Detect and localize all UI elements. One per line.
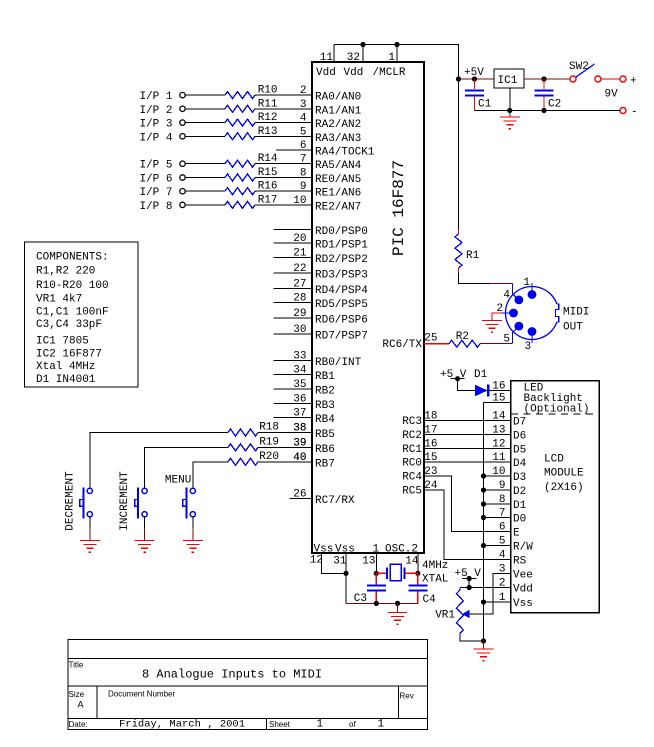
svg-text:8: 8	[499, 494, 506, 506]
svg-text:R10-R20 100: R10-R20 100	[36, 280, 109, 292]
svg-text:5: 5	[499, 536, 506, 548]
svg-text:RC3: RC3	[402, 416, 422, 428]
svg-text:RD6/PSP6: RD6/PSP6	[315, 315, 368, 327]
node I/P 3 terminal	[139, 119, 185, 131]
svg-text:I/P 6: I/P 6	[139, 174, 172, 186]
svg-text:+: +	[630, 76, 637, 88]
node I/P 6 terminal	[139, 174, 185, 186]
wire RC2 pin 17 to LCD pin 13 D6	[402, 425, 526, 443]
pin stub 21 / label RD2/PSP2	[274, 248, 368, 267]
svg-text:21: 21	[293, 248, 307, 260]
pin stub 6 / label RA4/TOCK1	[276, 140, 375, 159]
pin 25 RC6/TX	[382, 333, 437, 352]
svg-text:RB3: RB3	[315, 400, 335, 412]
wire INCREMENT to ground	[144, 517, 146, 540]
svg-text:RB5: RB5	[315, 429, 335, 441]
ground under DECREMENT	[80, 541, 100, 553]
svg-text:COMPONENTS:: COMPONENTS:	[36, 251, 109, 263]
svg-text:D2: D2	[513, 486, 526, 498]
wire IC1 common to ground	[509, 88, 511, 117]
svg-text:4MHz: 4MHz	[422, 560, 448, 572]
svg-text:12: 12	[310, 555, 323, 567]
svg-text:I/P 4: I/P 4	[139, 132, 172, 144]
svg-text:22: 22	[293, 263, 306, 275]
title block frame	[68, 640, 428, 730]
svg-text:D3: D3	[513, 472, 526, 484]
ground under MENU	[183, 541, 203, 553]
capacitor C4	[408, 573, 436, 606]
connector MIDI OUT DIN socket	[505, 287, 589, 340]
svg-text:Vdd: Vdd	[344, 67, 364, 79]
switch MENU pushbutton	[165, 475, 196, 519]
wire I/P 7 to R16	[185, 190, 225, 192]
pin stub 28 / label RD5/PSP5	[274, 292, 368, 311]
ground under oscillator	[388, 613, 407, 625]
wire ground bus to LCD pin 7 D0	[481, 508, 526, 526]
svg-text:11: 11	[492, 452, 506, 464]
node I/P 4 terminal	[139, 132, 185, 144]
wire R13 to pin	[255, 135, 312, 137]
svg-text:10: 10	[492, 466, 505, 478]
svg-text:D6: D6	[513, 431, 526, 443]
svg-text:31: 31	[333, 556, 347, 568]
svg-text:RC0: RC0	[402, 458, 422, 470]
resistor R15	[225, 167, 278, 181]
pin stub 26 / label RC7/RX	[290, 488, 355, 507]
svg-text:I/P 2: I/P 2	[139, 105, 172, 117]
capacitor C1	[465, 79, 492, 111]
svg-text:3: 3	[525, 341, 532, 353]
pin stub 35 / label RB2	[274, 379, 335, 398]
node I/P 5 terminal	[139, 160, 185, 172]
wire MIDI pin 2 to ground	[492, 313, 502, 321]
svg-text:RC1: RC1	[402, 444, 422, 456]
pin stub 9 / label RE1/AN6	[300, 181, 361, 200]
pin stub 40 / label RB7	[293, 452, 335, 471]
pin 14 OSC2 stub	[405, 553, 420, 576]
node battery - terminal	[620, 107, 638, 119]
wire INCREMENT button to R19	[145, 447, 228, 488]
svg-text:RC7/RX: RC7/RX	[315, 495, 355, 507]
svg-text:RA4/TOCK1: RA4/TOCK1	[315, 147, 375, 159]
svg-text:RA3/AN3: RA3/AN3	[315, 133, 361, 145]
svg-text:RA2/AN2: RA2/AN2	[315, 119, 361, 131]
svg-text:RA5/AN4: RA5/AN4	[315, 160, 362, 172]
svg-text:/MCLR: /MCLR	[373, 67, 406, 79]
ground at MIDI pin 2	[482, 321, 502, 333]
svg-text:Sheet: Sheet	[269, 720, 291, 729]
wire Vdd row to LCD pin 2	[460, 587, 510, 589]
svg-text:23: 23	[424, 466, 437, 478]
diode D1	[474, 369, 488, 396]
pin stub 36 / label RB3	[274, 394, 335, 413]
wire R10 to pin	[255, 94, 312, 96]
wire ground bus to LCD pin 8 D1	[481, 494, 527, 512]
svg-text:RD4/PSP4: RD4/PSP4	[315, 285, 368, 297]
svg-text:Xtal 4MHz: Xtal 4MHz	[36, 361, 95, 373]
capacitor C3	[354, 573, 386, 605]
svg-text:RA1/AN1: RA1/AN1	[315, 105, 362, 117]
svg-text:Vss: Vss	[513, 598, 533, 610]
svg-text:MENU: MENU	[165, 475, 191, 487]
svg-text:15: 15	[424, 452, 437, 464]
wire I/P 2 to R11	[185, 108, 225, 110]
junction at pin 1	[394, 42, 399, 47]
wire VR1 wiper to LCD pin 3 Vee	[470, 574, 510, 615]
label LCD pin 2 Vdd row	[499, 578, 533, 596]
svg-text:RB6: RB6	[315, 444, 335, 456]
pin stub 20 / label RD1/PSP1	[274, 233, 369, 252]
svg-text:37: 37	[293, 408, 306, 420]
svg-text:C4: C4	[423, 594, 437, 606]
wire ground bus to LCD pin 9 D2	[481, 480, 526, 498]
wire DECREMENT button to R18	[90, 433, 228, 488]
svg-text:I/P 8: I/P 8	[139, 201, 172, 213]
resistor R14	[225, 153, 278, 167]
wire DECREMENT to ground	[89, 517, 91, 540]
svg-text:RC5: RC5	[402, 486, 422, 498]
svg-text:RD0/PSP0: RD0/PSP0	[315, 226, 368, 238]
resistor R18	[228, 422, 307, 437]
svg-text:9: 9	[499, 480, 506, 492]
pin stub 22 / label RD3/PSP3	[274, 263, 368, 282]
pin 13 OSC1 stub	[362, 553, 379, 576]
svg-text:D5: D5	[513, 445, 526, 457]
svg-text:Vdd: Vdd	[316, 67, 336, 79]
svg-text:35: 35	[293, 379, 306, 391]
svg-text:RB7: RB7	[315, 458, 335, 470]
title block labels	[69, 661, 414, 730]
svg-text:27: 27	[293, 279, 306, 291]
wire R11 to pin	[255, 108, 312, 110]
svg-text:30: 30	[293, 324, 306, 336]
pin 1 stub	[388, 45, 397, 65]
wire I/P 3 to R12	[185, 122, 225, 124]
svg-text:E: E	[513, 528, 520, 540]
wire I/P 5 to R14	[185, 163, 225, 165]
wire oscillator ground rail	[346, 601, 418, 613]
wire +5V to Vdd row	[467, 579, 472, 591]
wire +5V node down to R1	[458, 79, 460, 234]
MIDI pin 4	[503, 284, 523, 305]
resistor R1	[455, 234, 480, 268]
resistor R12	[225, 112, 278, 126]
svg-text:14: 14	[405, 556, 419, 568]
ground under INCREMENT	[135, 541, 155, 553]
svg-text:I/P 1: I/P 1	[139, 91, 172, 103]
pin stub 5 / label RA3/AN3	[300, 126, 361, 145]
MIDI pin 2	[496, 303, 518, 317]
resistor R17	[225, 194, 278, 208]
svg-text:MODULE: MODULE	[544, 468, 584, 480]
pin stub 39 / label RB6	[293, 437, 335, 456]
wire RC1 pin 16 to LCD pin 12 D5	[402, 439, 526, 457]
svg-text:8 Analogue Inputs to MIDI: 8 Analogue Inputs to MIDI	[142, 668, 322, 682]
node I/P 8 terminal	[139, 201, 185, 213]
resistor R20	[228, 451, 307, 466]
svg-text:I/P 7: I/P 7	[139, 187, 172, 199]
svg-text:Date:: Date:	[69, 720, 88, 729]
pin stub 27 / label RD4/PSP4	[274, 279, 369, 298]
svg-text:IC1 7805: IC1 7805	[36, 336, 89, 348]
svg-text:25: 25	[424, 333, 437, 345]
svg-text:-: -	[631, 107, 638, 119]
svg-text:13: 13	[362, 556, 375, 568]
wire R19 to pin 39	[258, 446, 312, 448]
wire IC1 output to SW2	[524, 76, 570, 81]
junction at pin 32	[360, 42, 365, 47]
wire R18 to pin 38	[258, 432, 312, 434]
svg-text:R2: R2	[456, 331, 469, 343]
node I/P 7 terminal	[139, 187, 185, 199]
label LCD pin 6 E row	[499, 522, 520, 540]
pin stub 2 / label RA0/AN0	[300, 85, 361, 104]
wire MENU button to R20	[193, 462, 228, 488]
pin stub 29 / label RD6/PSP6	[274, 308, 368, 327]
svg-text:R1: R1	[466, 250, 480, 262]
wire RC0 pin 15 to LCD pin 11 D4	[402, 452, 526, 470]
svg-text:RD3/PSP3: RD3/PSP3	[315, 270, 368, 282]
switch SW2	[569, 61, 601, 82]
svg-text:A: A	[78, 700, 84, 710]
MIDI pin 3	[525, 327, 537, 353]
ground under LCD bus	[474, 649, 494, 661]
resistor R2	[449, 331, 480, 347]
svg-text:RE2/AN7: RE2/AN7	[315, 201, 361, 213]
pin stub 38 / label RB5	[293, 423, 335, 442]
svg-text:VR1: VR1	[435, 610, 455, 622]
node I/P 2 terminal	[139, 105, 185, 117]
svg-text:Vdd: Vdd	[513, 584, 533, 596]
svg-text:12: 12	[492, 439, 505, 451]
svg-text:OUT: OUT	[563, 322, 583, 334]
wire I/P 8 to R17	[185, 204, 225, 206]
svg-text:C1: C1	[478, 99, 492, 111]
node +5V at VR1	[455, 568, 482, 581]
wire: Vdd/MCLR top rail to +5V node	[334, 45, 459, 80]
svg-text:36: 36	[293, 394, 306, 406]
pin stub 10 / label RE2/AN7	[293, 195, 361, 214]
wire R12 to pin	[255, 122, 312, 124]
svg-text:6: 6	[300, 140, 307, 152]
wire R14 to pin	[255, 163, 312, 165]
components list box	[25, 242, 139, 387]
svg-text:17: 17	[424, 425, 437, 437]
svg-text:D1: D1	[513, 500, 527, 512]
wire R17 to pin	[255, 204, 312, 206]
svg-text:33: 33	[293, 350, 306, 362]
svg-text:RD5/PSP5: RD5/PSP5	[315, 299, 368, 311]
wire SW2 to battery + terminal	[601, 78, 620, 80]
pin stub 8 / label RE0/AN5	[300, 168, 361, 187]
svg-text:C1,C1 100nF: C1,C1 100nF	[36, 306, 109, 318]
potentiometer VR1	[435, 588, 470, 636]
pin stub 37 / label RB4	[274, 408, 336, 427]
svg-text:1: 1	[378, 719, 385, 731]
svg-text:D1: D1	[474, 369, 488, 381]
svg-text:1: 1	[499, 592, 506, 604]
microcontroller IC2 PIC 16F877 body	[312, 62, 424, 556]
svg-text:7: 7	[499, 508, 506, 520]
wire ground bus to LCD pin 1 Vss	[481, 592, 533, 610]
wire I/P 4 to R13	[185, 135, 225, 137]
svg-text:15: 15	[492, 393, 505, 405]
svg-text:DECREMENT: DECREMENT	[64, 471, 76, 531]
node battery + terminal	[605, 76, 637, 101]
svg-text:R20: R20	[259, 451, 279, 463]
svg-text:Vee: Vee	[513, 570, 533, 582]
LCD module box	[511, 381, 600, 613]
svg-text:XTAL: XTAL	[422, 574, 448, 586]
svg-text:R1,R2 220: R1,R2 220	[36, 265, 95, 277]
svg-text:R/W: R/W	[513, 542, 533, 554]
svg-text:Friday, March , 2001: Friday, March , 2001	[119, 719, 245, 731]
svg-text:16: 16	[492, 381, 505, 393]
resistor R19	[228, 436, 307, 451]
wire +5V node to IC1 input	[459, 76, 495, 81]
svg-text:Size: Size	[69, 690, 85, 699]
svg-text:MIDI: MIDI	[563, 307, 589, 319]
svg-text:18: 18	[424, 411, 437, 423]
wire RC4 pin 23 to LCD pin 6 E	[402, 466, 510, 532]
svg-text:1: 1	[388, 52, 395, 64]
resistor R11	[225, 98, 278, 112]
wire D1 to LCD pin 16	[489, 381, 510, 393]
wire ground bus to LCD pin 10 D3	[481, 466, 526, 484]
pin stub 7 / label RA5/AN4	[300, 154, 362, 173]
svg-text:RC2: RC2	[402, 430, 422, 442]
svg-text:RA0/AN0: RA0/AN0	[315, 92, 361, 104]
svg-text:I/P 5: I/P 5	[139, 160, 172, 172]
regulator IC1	[494, 69, 524, 88]
pin 11 stub	[320, 45, 334, 65]
svg-text:Rev: Rev	[400, 692, 414, 701]
date text	[119, 719, 385, 731]
svg-text:LCD: LCD	[544, 454, 564, 466]
svg-text:C3,C4 33pF: C3,C4 33pF	[36, 319, 102, 331]
wire VR1 bottom to ground bus	[460, 636, 486, 644]
svg-text:Document Number: Document Number	[108, 690, 175, 699]
svg-text:RE1/AN6: RE1/AN6	[315, 188, 361, 200]
svg-text:D7: D7	[513, 417, 526, 429]
wire - terminal to ground rail	[475, 108, 621, 113]
svg-text:RD7/PSP7: RD7/PSP7	[315, 330, 368, 342]
svg-text:D0: D0	[513, 514, 526, 526]
wire R1 to MIDI pin 4	[459, 268, 513, 284]
svg-text:RB0/INT: RB0/INT	[315, 357, 362, 369]
switch INCREMENT pushbutton	[119, 471, 147, 531]
svg-text:24: 24	[424, 480, 438, 492]
svg-text:1: 1	[317, 719, 324, 731]
svg-text:RS: RS	[513, 556, 527, 568]
capacitor C2	[535, 79, 562, 111]
svg-text:16: 16	[424, 439, 437, 451]
wire I/P 6 to R15	[185, 177, 225, 179]
svg-text:28: 28	[293, 292, 306, 304]
wire R20 to pin 40	[258, 461, 312, 463]
pin stub 19 / label RD0/PSP0	[274, 226, 368, 238]
svg-text:RC6/TX: RC6/TX	[382, 339, 422, 351]
node +5V at D1	[440, 369, 467, 381]
svg-text:IC2 16F877: IC2 16F877	[36, 348, 102, 360]
svg-text:RC4: RC4	[402, 472, 422, 484]
svg-text:13: 13	[492, 425, 505, 437]
label LCD pin 4 RS row	[499, 550, 527, 568]
svg-text:PIC 16F877: PIC 16F877	[390, 160, 408, 256]
ground under IC1	[500, 117, 520, 129]
svg-text:C2: C2	[548, 99, 561, 111]
MIDI pin 5	[503, 322, 523, 346]
crystal X1 4MHz	[376, 560, 448, 586]
switch DECREMENT pushbutton	[64, 471, 92, 531]
wire R16 to pin	[255, 190, 312, 192]
svg-text:20: 20	[293, 233, 306, 245]
svg-text:RB2: RB2	[315, 385, 335, 397]
svg-text:RB4: RB4	[315, 414, 335, 426]
svg-text:29: 29	[293, 308, 306, 320]
svg-text:D4: D4	[513, 458, 527, 470]
node I/P 1 terminal	[139, 91, 185, 103]
svg-text:(2X16): (2X16)	[544, 482, 584, 494]
svg-text:VR1 4k7: VR1 4k7	[36, 294, 82, 306]
MIDI pin 1	[523, 277, 536, 299]
pin stub 34 / label RB1	[274, 364, 336, 383]
pin 32 stub	[347, 45, 363, 65]
wire I/P 1 to R10	[185, 94, 225, 96]
svg-text:I/P 3: I/P 3	[139, 119, 172, 131]
wire ground bus to LCD pin 5 R/W	[481, 536, 533, 554]
svg-text:SW2: SW2	[569, 61, 589, 73]
wire LCD pin 15 to ground bus	[484, 393, 511, 405]
pin stub 33 / label RB0/INT	[274, 350, 362, 369]
svg-text:R18: R18	[259, 422, 279, 434]
wire RC5 pin 24 to LCD pin 4 RS	[402, 480, 510, 560]
svg-text:4: 4	[503, 290, 510, 302]
wire +5V to D1 anode	[458, 379, 475, 391]
svg-text:Vss: Vss	[335, 544, 355, 556]
label LCD pin 3 Vee row	[499, 564, 533, 582]
title text	[142, 668, 322, 682]
svg-text:RE0/AN5: RE0/AN5	[315, 174, 361, 186]
svg-text:34: 34	[293, 364, 307, 376]
svg-text:RD2/PSP2: RD2/PSP2	[315, 254, 368, 266]
svg-text:11: 11	[320, 52, 334, 64]
svg-text:RB1: RB1	[315, 371, 335, 383]
wire RC3 pin 18 to LCD pin 14 D7	[402, 411, 526, 429]
svg-text:26: 26	[293, 488, 306, 500]
svg-text:R19: R19	[259, 436, 279, 448]
wire RC6/TX to R2	[424, 343, 449, 345]
wire MENU to ground	[192, 517, 194, 540]
svg-text:of: of	[349, 720, 356, 729]
svg-text:Title: Title	[69, 661, 84, 670]
svg-text:OSC.2: OSC.2	[385, 544, 418, 556]
svg-text:14: 14	[492, 411, 506, 423]
svg-text:INCREMENT: INCREMENT	[119, 471, 131, 531]
svg-text:32: 32	[347, 52, 360, 64]
resistor R16	[225, 181, 278, 195]
pin stub 4 / label RA2/AN2	[300, 113, 361, 132]
resistor R10	[225, 85, 278, 99]
pin 12 Vss stub	[310, 553, 346, 573]
wire R2 to MIDI pin 5	[480, 343, 513, 345]
node +5V	[456, 67, 484, 82]
resistor R13	[225, 126, 278, 140]
svg-text:(Optional): (Optional)	[524, 404, 590, 416]
svg-text:1: 1	[523, 277, 530, 289]
wire bus to ground	[483, 641, 485, 649]
svg-text:9V: 9V	[605, 89, 619, 101]
